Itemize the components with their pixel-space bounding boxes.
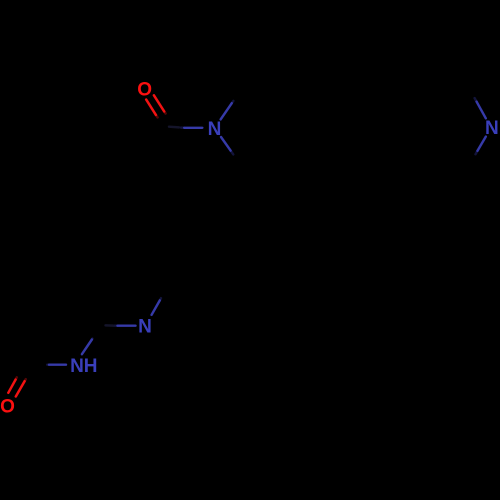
bond N4-C4 horizontal	[47, 363, 66, 365]
bond O2=C4 double bond line b	[16, 379, 26, 396]
svg-text:O: O	[0, 397, 15, 418]
bond N1-CH3 upper	[221, 101, 234, 120]
bond N2-C upper-left	[475, 98, 486, 118]
bond O2=C4 double bond line a	[8, 377, 16, 393]
bond O1=C1 double bond line b	[154, 95, 166, 113]
bond N1-CH3 lower	[221, 137, 233, 154]
svg-text:O: O	[137, 80, 152, 101]
bond O1=C1 double bond line a	[146, 100, 157, 118]
svg-text:N: N	[138, 317, 152, 338]
bond N3-C5 horizontal	[106, 324, 136, 327]
svg-text:N: N	[208, 119, 222, 140]
svg-text:NH: NH	[70, 356, 97, 377]
bond N2-C lower-left	[476, 137, 486, 155]
bond N3-CH3 upper-right	[152, 298, 161, 315]
bond N4-C5 up-right	[82, 339, 93, 355]
svg-text:N: N	[485, 118, 499, 139]
bond C1-N1 (amide C to N)	[169, 127, 202, 128]
